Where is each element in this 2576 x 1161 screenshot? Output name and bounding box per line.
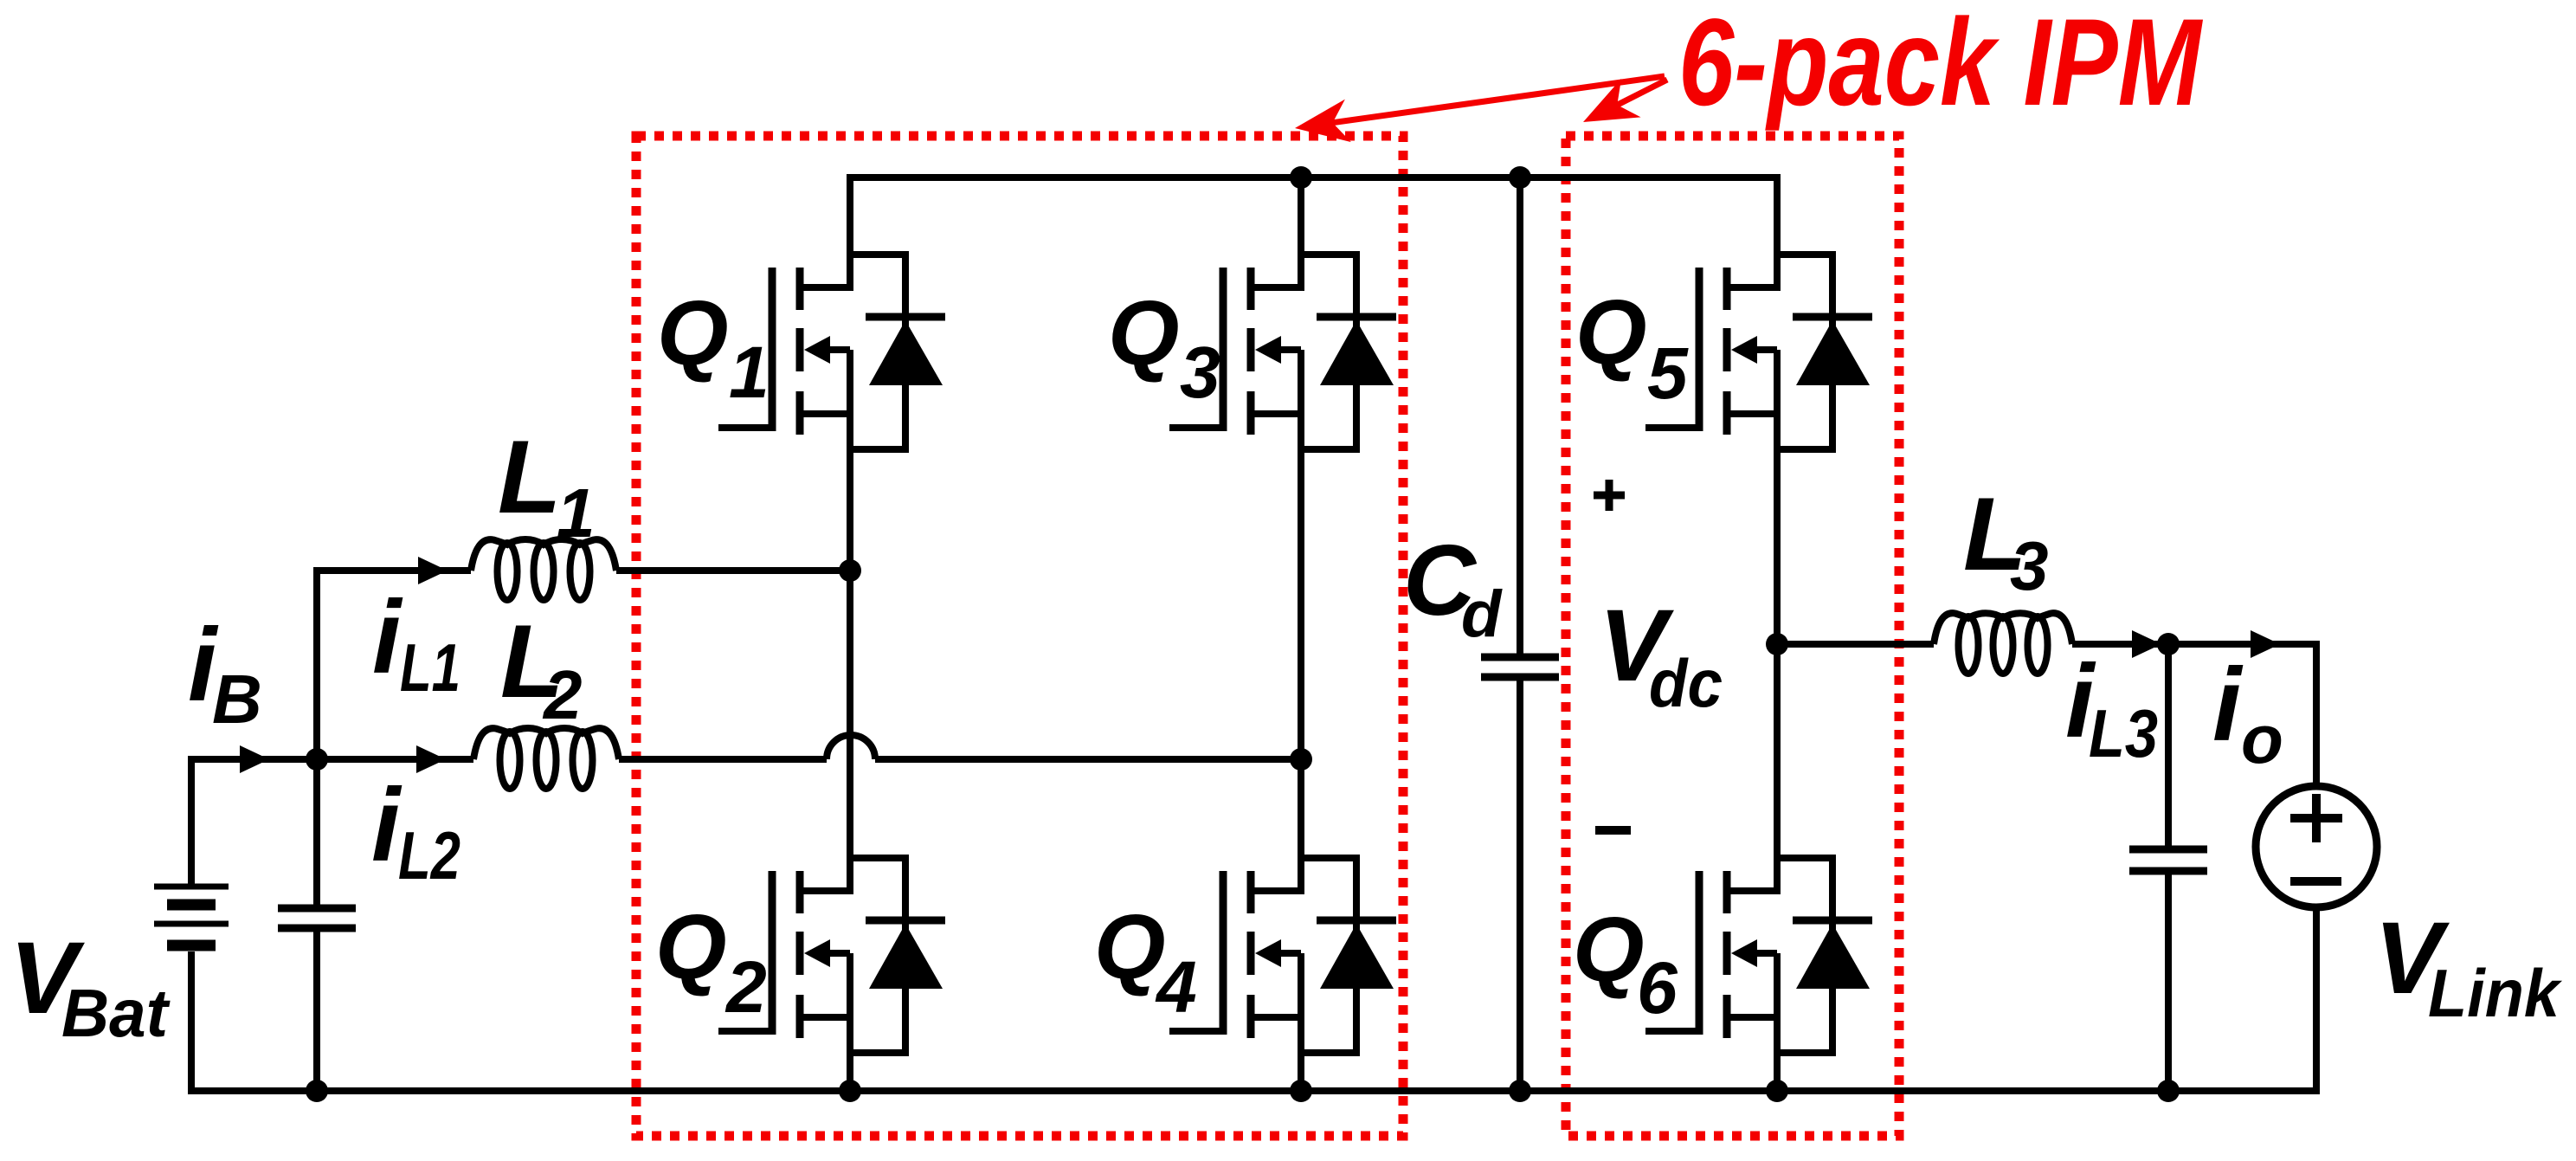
- node bottom rail at Cd: [1509, 1080, 1531, 1102]
- svg-text:L1: L1: [400, 629, 460, 706]
- label Q2: [655, 896, 767, 1028]
- wire Q4 source to bottom rail: [1298, 953, 1304, 1091]
- node A (battery/filter-cap/L1/L2 junction): [306, 748, 328, 771]
- capacitor Cd plates: [1481, 654, 1559, 661]
- wire L3 coil to output node: [2072, 641, 2316, 648]
- plus sign inside VLink source: [2290, 814, 2342, 822]
- label VBat: [10, 921, 171, 1051]
- arrow current iL2: [416, 745, 446, 773]
- svg-text:Q: Q: [657, 282, 728, 384]
- inductor L2 coil: [473, 728, 619, 759]
- node bottom rail at Q2: [839, 1080, 861, 1102]
- node L1 at Q1-Q2 midpoint: [839, 559, 861, 582]
- node bottom rail at Q6: [1766, 1080, 1788, 1102]
- svg-text:5: 5: [1647, 332, 1689, 414]
- svg-text:L3: L3: [2089, 695, 2158, 771]
- svg-text:6: 6: [1637, 947, 1678, 1029]
- voltage source VLink circle: [2256, 786, 2377, 907]
- wire battery negative lead down to bottom rail: [188, 951, 195, 1091]
- transistor Q5 (N-MOSFET with body diode): [1645, 251, 1872, 453]
- label plus sign of Vdc: [1594, 492, 1625, 500]
- svg-text:4: 4: [1155, 946, 1197, 1028]
- transistor Q6 (N-MOSFET with body diode): [1645, 855, 1872, 1056]
- svg-text:1: 1: [729, 332, 770, 413]
- wire bottom DC- rail: [188, 1087, 2320, 1094]
- red callout arrow to box 2: [1597, 80, 1667, 115]
- wire Q5 source to Q6 drain (through phase node): [1774, 350, 1781, 894]
- transistor Q1 (N-MOSFET with body diode): [718, 251, 945, 453]
- label Cd: [1403, 524, 1503, 651]
- svg-text:2: 2: [542, 656, 583, 733]
- node L2 at Q3-Q4 midpoint: [1290, 748, 1312, 771]
- svg-text:dc: dc: [1649, 645, 1723, 721]
- svg-text:Link: Link: [2428, 955, 2562, 1031]
- label iB: [188, 607, 262, 738]
- svg-text:2: 2: [724, 946, 767, 1028]
- label VLink: [2374, 901, 2562, 1031]
- svg-text:Q: Q: [1575, 281, 1646, 384]
- inductor L3 coil: [1934, 613, 2072, 644]
- label Q6: [1573, 899, 1678, 1029]
- wire Q3 drain lead from top rail: [1298, 174, 1304, 291]
- svg-text:6-pack IPM: 6-pack IPM: [1678, 0, 2203, 132]
- wire top DC+ rail: [847, 174, 1781, 181]
- svg-text:L: L: [498, 419, 561, 535]
- minus sign inside VLink source: [2290, 877, 2341, 886]
- transistor Q3 (N-MOSFET with body diode): [1169, 251, 1396, 453]
- wire Q5 drain lead from top rail corner: [1774, 174, 1781, 291]
- svg-text:Q: Q: [655, 896, 726, 998]
- wire filter capacitor branch lower: [313, 928, 320, 1091]
- wire VLink branch from output node down to source circle: [2313, 641, 2320, 786]
- battery VBat plates: [154, 887, 229, 945]
- wire node A up to L1 branch corner: [313, 567, 320, 759]
- wire hop over Q1-Q2 conductor: [827, 735, 875, 759]
- wire output capacitor branch lower: [2165, 871, 2172, 1091]
- wire Q1 drain lead from top rail: [847, 174, 853, 291]
- svg-text:d: d: [1461, 577, 1503, 651]
- capacitor output filter plates: [2129, 846, 2207, 854]
- wire output capacitor branch upper: [2165, 644, 2172, 849]
- arrow current iL1: [418, 557, 448, 584]
- label Q1: [657, 282, 770, 413]
- transistor Q2 (N-MOSFET with body diode): [718, 855, 945, 1056]
- node top rail at Q3 drain: [1290, 166, 1312, 189]
- wire Q1 source to Q2 drain (through L1 node): [847, 350, 853, 894]
- label Q4: [1094, 896, 1197, 1028]
- wire Cd branch lower: [1517, 677, 1523, 1091]
- capacitor input filter plates: [278, 905, 356, 913]
- wire battery positive lead up to node iB: [188, 759, 195, 885]
- label minus sign of Vdc: [1595, 826, 1631, 835]
- node top rail at Cd: [1509, 166, 1531, 189]
- node phase at Q5-Q6 midpoint: [1766, 633, 1788, 655]
- svg-text:o: o: [2241, 700, 2283, 777]
- label Q5: [1575, 281, 1689, 414]
- svg-text:Bat: Bat: [61, 975, 171, 1051]
- wire L1 coil to Q1-Q2 midpoint node: [616, 567, 850, 574]
- arrow current iB: [240, 745, 269, 773]
- arrow current io: [2251, 630, 2280, 658]
- 6-pack IPM module boundary box 1 (red dotted, around Q1-Q4): [636, 136, 1403, 1136]
- wire phase node to L3 coil: [1777, 641, 1934, 648]
- node output (L3/cap/VLink): [2157, 633, 2180, 655]
- svg-text:Q: Q: [1094, 896, 1165, 998]
- wire L2 hop to Q3-Q4 midpoint node: [875, 756, 1301, 763]
- wire filter capacitor branch upper: [313, 759, 320, 908]
- red callout arrow to box 1: [1312, 76, 1665, 126]
- svg-text:Q: Q: [1573, 899, 1644, 1001]
- svg-text:L2: L2: [398, 817, 460, 893]
- wire L2 coil to hop: [619, 756, 827, 763]
- label L2: [500, 603, 583, 733]
- wire L1 branch horizontal to coil: [317, 567, 471, 574]
- label Q3: [1108, 282, 1220, 413]
- svg-text:3: 3: [1180, 332, 1220, 413]
- wire iB horizontal from battery to node A: [188, 756, 317, 763]
- svg-text:B: B: [212, 661, 262, 738]
- svg-text:i: i: [2212, 647, 2244, 763]
- wire L2 branch horizontal from node A to coil: [317, 756, 473, 763]
- label iL2: [371, 767, 460, 893]
- wire Q6 source to bottom rail: [1774, 953, 1781, 1091]
- svg-text:1: 1: [557, 474, 596, 551]
- wire VLink source bottom to rail: [2313, 907, 2320, 1091]
- label iL3: [2065, 643, 2158, 771]
- label L3: [1963, 476, 2049, 604]
- label L1: [498, 419, 596, 551]
- wire Q3 source to Q4 drain (through L2 node): [1298, 350, 1304, 894]
- svg-text:Q: Q: [1108, 282, 1179, 384]
- node bottom rail at filter cap: [306, 1080, 328, 1102]
- wire Q2 source to bottom rail: [847, 953, 853, 1091]
- transistor Q4 (N-MOSFET with body diode): [1169, 855, 1396, 1056]
- wire Cd branch upper: [1517, 177, 1523, 657]
- label iL1: [372, 579, 460, 706]
- 6-pack IPM module boundary box 2 (red dotted, around Q5-Q6): [1566, 136, 1899, 1136]
- node bottom rail at Q4: [1290, 1080, 1312, 1102]
- svg-text:3: 3: [2010, 527, 2049, 604]
- label io: [2212, 647, 2283, 777]
- svg-text:i: i: [372, 579, 403, 695]
- label Vdc: [1599, 589, 1723, 721]
- inductor L1 coil: [471, 539, 616, 571]
- node bottom rail at output cap: [2157, 1080, 2180, 1102]
- arrow current iL3: [2132, 630, 2161, 658]
